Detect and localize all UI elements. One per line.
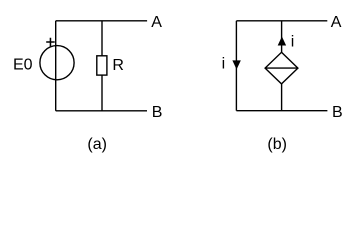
resistor R body: [97, 56, 107, 75]
arrowhead: branch current down: [233, 61, 240, 69]
polarity plus sign of E0: [46, 38, 55, 47]
current source diamond: [265, 52, 298, 84]
wire: circuit (a) middle branch: [101, 21, 103, 111]
svg-text:R: R: [112, 57, 124, 74]
wire: circuit (b) bottom rail: [236, 110, 327, 112]
svg-text:A: A: [151, 14, 162, 31]
svg-text:i: i: [291, 34, 295, 51]
svg-text:A: A: [331, 14, 342, 31]
current source middle bar: [265, 67, 298, 69]
svg-text:(a): (a): [87, 136, 107, 153]
voltage source E0 circle: [40, 46, 74, 80]
svg-text:B: B: [332, 104, 343, 121]
arrowhead: source current up: [278, 37, 285, 45]
wire: circuit (b) left branch: [235, 21, 237, 111]
wire: circuit (a) bottom rail: [56, 110, 147, 112]
svg-text:i: i: [222, 55, 226, 72]
svg-text:E0: E0: [13, 57, 33, 74]
svg-text:B: B: [152, 104, 163, 121]
svg-text:(b): (b): [267, 136, 287, 153]
wire: circuit (b) top rail: [236, 20, 327, 22]
wire: circuit (a) top rail: [56, 20, 147, 22]
wire: circuit (b) middle branch: [281, 21, 283, 111]
wire: circuit (a) left branch: [55, 21, 57, 111]
